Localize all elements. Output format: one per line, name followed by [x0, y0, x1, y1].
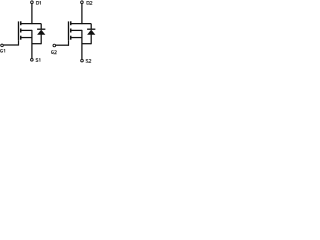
terminal S1: [31, 59, 34, 62]
terminal D1: [31, 1, 34, 4]
wire source stub Q2: [71, 37, 82, 39]
label S2: [86, 59, 91, 62]
label G2: [51, 51, 56, 54]
channel segment Q1 middle: [20, 29, 22, 33]
wire source drop Q2: [81, 30, 83, 59]
wire drain rail Q1: [21, 23, 41, 25]
channel segment Q1 top: [20, 21, 22, 25]
wire diode bottom lead Q2: [90, 35, 92, 45]
wire gate lead vertical Q1: [18, 40, 20, 45]
transistor Q1: [4, 4, 42, 58]
terminal D2: [81, 1, 84, 4]
wire drain rail Q2: [71, 23, 91, 25]
diode cathode bar Q1: [37, 28, 45, 30]
wire source stub Q1: [21, 37, 32, 39]
label D1: [36, 1, 40, 5]
diode triangle Q1: [37, 30, 45, 35]
gate bar Q2: [68, 21, 70, 40]
terminal G1: [1, 44, 4, 47]
wire drain riser Q1: [31, 4, 33, 24]
channel segment Q1 bottom: [20, 36, 22, 40]
wire source-diode rail Q2: [82, 43, 91, 45]
channel segment Q2 middle: [70, 29, 72, 33]
label D2: [87, 1, 92, 5]
wire diode top lead Q2: [90, 24, 92, 30]
wire gate lead vertical Q2: [68, 40, 70, 46]
wire diode bottom lead Q1: [40, 35, 42, 45]
wire body stub Q2: [71, 29, 82, 31]
label S1: [36, 58, 40, 61]
wire source-diode rail Q1: [32, 43, 41, 45]
diode triangle Q2: [87, 30, 95, 35]
terminal S2: [81, 59, 84, 62]
wire gate lead horizontal Q1: [4, 44, 19, 46]
label G1: [0, 49, 4, 52]
wire drain riser Q2: [81, 4, 83, 24]
wire source drop Q1: [31, 30, 33, 58]
transistor Q2: [56, 4, 91, 59]
diode cathode bar Q2: [87, 28, 95, 30]
wire body stub Q1: [21, 29, 32, 31]
wire diode top lead Q1: [40, 24, 42, 30]
terminal G2: [53, 44, 56, 47]
gate bar Q1: [18, 21, 20, 40]
channel segment Q2 top: [70, 21, 72, 25]
wire gate lead horizontal Q2: [56, 44, 69, 46]
channel segment Q2 bottom: [70, 36, 72, 40]
body diode of Q1: [37, 24, 45, 45]
body diode of Q2: [87, 24, 95, 45]
